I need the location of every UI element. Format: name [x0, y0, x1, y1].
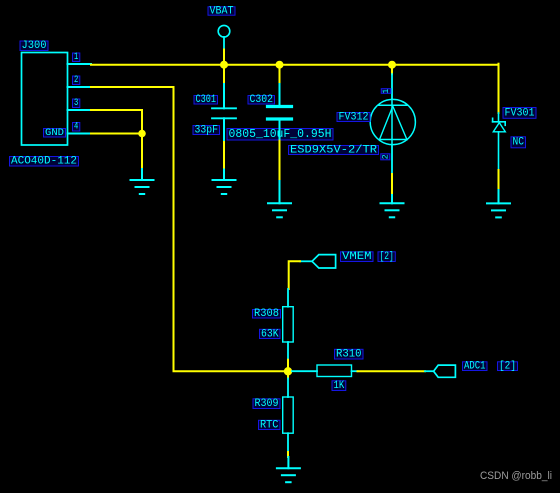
- junction dot resistor network: [284, 367, 292, 375]
- wire FV312 to ground: [391, 174, 393, 195]
- wire pin1 to VBAT rail: [91, 64, 499, 66]
- connector J300 value label ACO40D-112: [10, 156, 79, 168]
- port VMEM sheet number label: [378, 251, 395, 263]
- resistor R310 refdes label: [335, 349, 364, 361]
- J300 pin 2: [68, 86, 92, 88]
- wire junction to R309: [287, 371, 289, 378]
- J300 pin 3 number: [73, 98, 80, 109]
- wire pin3 to gnd junction: [91, 110, 142, 134]
- svg-text:CSDN @robb_li: CSDN @robb_li: [480, 470, 552, 482]
- zener FV301 NC label: [511, 137, 526, 149]
- ground stem FV301: [498, 190, 500, 203]
- resistor R309 refdes label: [253, 398, 280, 410]
- wire C301 to ground: [223, 142, 225, 170]
- ground symbol under C301: [213, 180, 236, 194]
- ground symbol under J300: [131, 180, 154, 194]
- connector J300 GND pin name: [44, 127, 66, 139]
- FV312 pin 1 number: [381, 89, 391, 94]
- junction dot pins 3-4: [138, 130, 146, 138]
- svg-text:C301: C301: [196, 94, 217, 106]
- capacitor C302 refdes label: [248, 94, 275, 106]
- port VMEM name label: [341, 251, 374, 263]
- ground symbol under C302: [268, 203, 291, 217]
- FV312 pin 2 number: [380, 154, 390, 160]
- svg-text:RTC: RTC: [260, 419, 279, 431]
- wire rail to FV312: [391, 65, 393, 75]
- capacitor C301 value label 33pF: [193, 124, 220, 136]
- svg-text:3: 3: [74, 98, 78, 109]
- port ADC1 name label: [463, 361, 488, 373]
- TVS diode FV312: [370, 74, 415, 174]
- ground stem R309: [287, 457, 289, 468]
- wire FV301 to ground: [498, 170, 500, 190]
- wire rail corner to FV301: [498, 64, 500, 113]
- ground symbol under FV312: [381, 203, 404, 217]
- svg-text:33pF: 33pF: [194, 124, 218, 136]
- capacitor C302 value label: [227, 128, 333, 141]
- resistor R309 value label RTC: [259, 419, 281, 431]
- wire R309 to ground: [287, 452, 289, 457]
- zener diode FV301: [493, 113, 506, 170]
- capacitor C301 refdes label: [194, 94, 218, 106]
- power port VBAT circle: [218, 25, 230, 49]
- svg-text:1: 1: [74, 52, 78, 63]
- resistor R308: [283, 289, 294, 360]
- svg-text:FV301: FV301: [505, 107, 535, 119]
- svg-text:VBAT: VBAT: [210, 5, 234, 17]
- TVS FV312 refdes label: [337, 111, 370, 123]
- svg-text:R309: R309: [255, 398, 279, 410]
- ground for J300 pins 3-4: [141, 169, 143, 180]
- wire pin4 to gnd junction: [91, 133, 142, 135]
- J300 pin 4: [68, 133, 92, 135]
- svg-text:R310: R310: [336, 349, 362, 361]
- wire R310 to ADC1 port: [358, 370, 426, 372]
- svg-text:C302: C302: [249, 94, 273, 106]
- svg-text:ESD9X5V-2/TR: ESD9X5V-2/TR: [290, 144, 377, 156]
- svg-text:J300: J300: [22, 40, 47, 52]
- svg-text:[2]: [2]: [379, 251, 393, 263]
- svg-text:NC: NC: [512, 137, 524, 149]
- wire R308 to junction: [287, 360, 289, 372]
- capacitor C302: [268, 84, 292, 141]
- wire junction to ground: [141, 135, 143, 171]
- ground stem C301: [223, 170, 225, 181]
- TVS FV312 value label ESD9X5V-2/TR: [289, 144, 379, 156]
- sheet entry port ADC1: [425, 365, 455, 377]
- wire rail to C301: [223, 65, 225, 84]
- resistor R308 refdes label: [253, 308, 281, 320]
- port ADC1 sheet number label: [498, 361, 518, 373]
- J300 pin 1 number: [73, 52, 80, 63]
- J300 pin 1: [68, 63, 92, 65]
- J300 pin 3: [68, 109, 92, 111]
- ground stem FV312: [391, 195, 393, 203]
- junction dot C302: [276, 61, 284, 69]
- svg-text:4: 4: [74, 122, 78, 133]
- svg-text:[2]: [2]: [499, 361, 516, 373]
- svg-text:FV312: FV312: [339, 111, 369, 123]
- J300 pin 2 number: [73, 75, 80, 86]
- junction dot FV312: [388, 61, 396, 69]
- resistor R310 value label 1K: [332, 380, 346, 392]
- junction dot VBAT/C301: [220, 61, 228, 69]
- svg-text:GND: GND: [45, 127, 64, 139]
- J300 pin 4 number: [73, 122, 80, 133]
- connector J300 body: [22, 53, 68, 146]
- svg-text:VMEM: VMEM: [342, 251, 372, 263]
- resistor R308 value label 63K: [260, 328, 281, 340]
- svg-text:2: 2: [380, 154, 390, 159]
- resistor R309: [283, 379, 294, 453]
- svg-text:1: 1: [381, 89, 391, 94]
- svg-text:1K: 1K: [334, 380, 345, 392]
- wire VBAT to rail: [223, 50, 225, 65]
- wire C302 to ground: [279, 141, 281, 181]
- svg-text:2: 2: [74, 75, 78, 86]
- svg-text:ADC1: ADC1: [464, 361, 486, 373]
- ground stem C302: [279, 181, 281, 203]
- svg-text:63K: 63K: [261, 328, 279, 340]
- wire VMEM to R308: [289, 261, 300, 289]
- svg-text:ACO40D-112: ACO40D-112: [11, 156, 77, 168]
- zener FV301 refdes label: [503, 107, 536, 119]
- ground symbol under FV301: [487, 203, 510, 217]
- resistor R310: [292, 365, 358, 377]
- wire pin2 to resistor network: [91, 87, 286, 371]
- wire rail to C302: [279, 65, 281, 84]
- sheet entry port VMEM: [300, 255, 336, 268]
- ground symbol under R309: [277, 468, 300, 482]
- svg-text:R308: R308: [254, 308, 279, 320]
- power port VBAT label: [208, 5, 235, 17]
- capacitor C301: [212, 84, 236, 142]
- connector J300 refdes label: [20, 40, 48, 52]
